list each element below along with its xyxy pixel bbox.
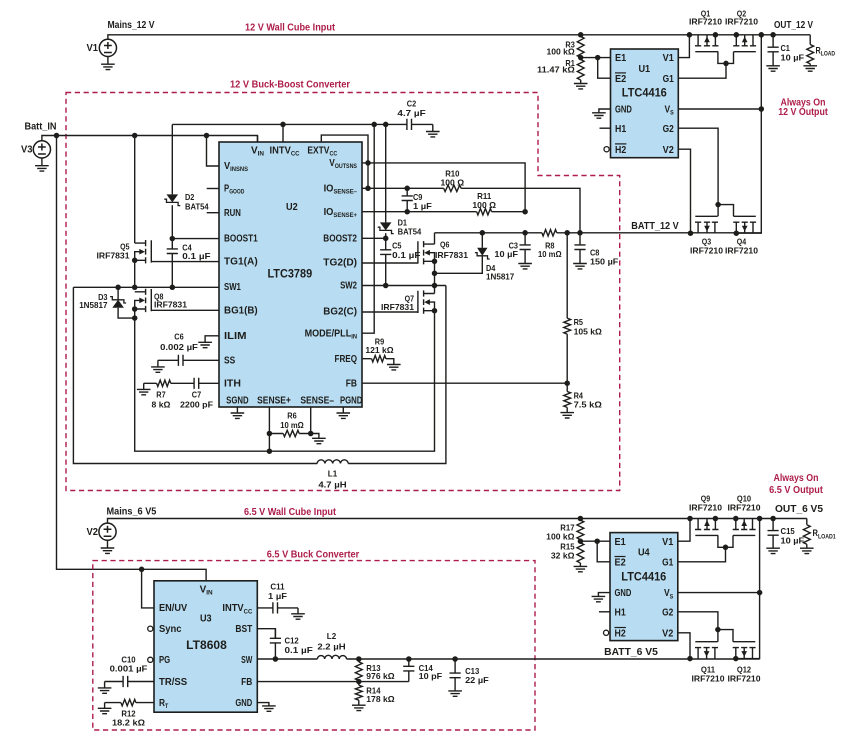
ground below R15 [574, 563, 588, 572]
svg-text:V2: V2 [663, 145, 675, 156]
resistor R1 [577, 60, 584, 81]
wire EXTVCC link to VOUTSNS [321, 135, 368, 163]
label C5 0.1 uF [392, 241, 420, 261]
label R11 100 Ohm [472, 191, 496, 210]
junction dot BOOST1/C4 [170, 236, 176, 242]
junction dots Q1/Q2 [713, 32, 739, 66]
svg-text:TR/SS: TR/SS [159, 677, 187, 688]
resistor R14 [355, 682, 362, 706]
label C9 1 uF [413, 192, 432, 211]
junction dot EN/UV branch [139, 567, 145, 573]
capacitor C11 on INTVCC [257, 602, 298, 613]
svg-text:4.7 µH: 4.7 µH [318, 480, 346, 490]
svg-text:G2: G2 [663, 124, 675, 135]
wire SW1 pin run [73, 286, 219, 288]
junction dots on BATT_6V5 rail [356, 656, 458, 662]
svg-text:6.5 V Output: 6.5 V Output [769, 485, 823, 496]
label C14 10 pF [419, 663, 443, 681]
transistor Q3 IRF7210 [695, 216, 718, 233]
wire MODE/PLLIN riser [362, 124, 374, 333]
label C6 0.002 uF [160, 331, 198, 351]
wire TG2 to Q6 gate [362, 262, 418, 264]
svg-text:BAT54: BAT54 [398, 227, 422, 237]
svg-text:E1: E1 [615, 537, 627, 548]
capacitor C14 [403, 659, 414, 682]
junction dots sense network [365, 160, 528, 214]
junction dot C15 top [770, 516, 776, 522]
svg-text:8 kΩ: 8 kΩ [152, 399, 171, 409]
junction dots on OUT_6V5 vertical [757, 516, 763, 596]
junction dot C1 top [770, 32, 776, 38]
ground at C11 [291, 614, 305, 619]
wire SW2 pin run [362, 285, 446, 287]
junction dots on OUT_12V vertical [759, 32, 765, 112]
label D2 BAT54 [185, 192, 209, 211]
svg-text:LT8608: LT8608 [186, 639, 227, 652]
svg-text:H1: H1 [615, 124, 627, 135]
U3 PG bubble [148, 657, 153, 662]
label Q11 IRF7210 [692, 665, 725, 684]
svg-text:LTC3789: LTC3789 [267, 268, 312, 281]
svg-text:1 µF: 1 µF [268, 591, 287, 601]
svg-text:18.2 kΩ: 18.2 kΩ [112, 718, 145, 728]
junction dot FB/R13 [356, 679, 362, 685]
ground at R12 [98, 708, 112, 713]
U4 H2 bubble [604, 630, 609, 635]
svg-text:OUT_12 V: OUT_12 V [774, 20, 813, 31]
wire SW1 to L1 [73, 287, 317, 463]
wire D2 to BOOST1 junction [171, 205, 173, 238]
svg-text:IRF7210: IRF7210 [689, 16, 722, 26]
svg-text:FB: FB [346, 378, 357, 389]
label Q8 IRF7831 [154, 292, 187, 310]
label C7 2200 pF [180, 389, 213, 409]
resistor R12 on RT [105, 699, 154, 705]
dashed box 6.5 V Buck Converter [93, 561, 535, 730]
wire Q9-Q10 gate link [718, 535, 733, 547]
wire L1 to SW2 [348, 286, 446, 464]
svg-text:GND: GND [235, 698, 252, 709]
wire U1 G2 to Q3/Q4 gates [678, 128, 718, 204]
svg-text:178 kΩ: 178 kΩ [366, 694, 394, 704]
capacitor C12 [270, 629, 281, 659]
diode D2 BAT54 [164, 194, 180, 205]
ground below C8 [573, 264, 587, 269]
svg-text:IRF7831: IRF7831 [435, 250, 468, 260]
wire U4 Vs to output sense [678, 592, 760, 594]
junction dot SW/C12 [273, 656, 279, 662]
label R6 10 mOhm [280, 410, 304, 430]
op-amp U3 LT8608 body [154, 581, 257, 712]
junction dot U4 V1/rail [687, 516, 693, 522]
ground below R4 [560, 413, 574, 418]
label R17 100 kOhm [546, 522, 575, 541]
svg-text:1N5817: 1N5817 [486, 272, 515, 282]
ground below V1 [101, 57, 115, 70]
wire Q8 source chain down [135, 309, 435, 451]
svg-text:Sync: Sync [159, 624, 182, 635]
label R8 10 mOhm [538, 241, 562, 259]
wire U4 V1 to 6.5V rail [678, 519, 690, 542]
svg-text:C11: C11 [270, 582, 284, 592]
svg-text:C7: C7 [192, 389, 202, 399]
wire BST to C12 [257, 629, 275, 639]
junction dot Q7 source [432, 308, 438, 314]
wire D1 to BOOST2 [385, 233, 387, 238]
svg-text:H2: H2 [615, 145, 627, 156]
ground at PGND [337, 407, 351, 418]
wire E2 feed [598, 58, 611, 79]
svg-text:BAT54: BAT54 [185, 201, 209, 211]
svg-text:C2: C2 [407, 98, 417, 108]
label D1 BAT54 [398, 217, 422, 236]
svg-text:0.1 µF: 0.1 µF [285, 645, 313, 655]
wire SENSE+ drop [268, 407, 270, 451]
label Q5 IRF7831 [97, 242, 130, 261]
wire VOUTSNS run [362, 163, 525, 212]
svg-text:V1: V1 [87, 43, 99, 54]
label C12 0.1 uF [285, 636, 313, 655]
wire IOSENSE- run with R10 [362, 185, 580, 233]
U1 H1 stub [600, 127, 611, 129]
svg-text:1 µF: 1 µF [413, 201, 432, 211]
U1 GND pin wire [599, 109, 611, 113]
ground below C2 [426, 132, 440, 137]
label R5 105 kOhm [574, 317, 602, 336]
wire ILIM to ground [205, 336, 219, 343]
wire Batt_IN to Q5 drain [134, 136, 136, 244]
label L2 2.2 uH [317, 631, 345, 651]
label R10 100 Ohm [441, 168, 465, 187]
svg-text:RUN: RUN [224, 208, 241, 219]
ground at C10 [98, 688, 112, 693]
junction dots D1/C5 [383, 236, 389, 289]
svg-text:IRF7831: IRF7831 [154, 299, 187, 309]
junction dots near R17/R15 [578, 516, 600, 544]
resistor R7 and capacitor C7 on ITH [144, 378, 219, 389]
ground at R7 [137, 389, 151, 394]
wire Q6 drain to BATT rail [434, 233, 436, 244]
wire R3/R1 junction to E1 [581, 57, 611, 59]
wire U1 V1 to top rail [678, 35, 689, 58]
ground at SENSE- [312, 438, 326, 443]
svg-text:U3: U3 [200, 614, 212, 625]
svg-text:FB: FB [241, 677, 252, 688]
svg-text:TG2(D): TG2(D) [323, 258, 357, 269]
ground below R1 [574, 80, 588, 89]
label Q1 IRF7210 [689, 9, 722, 27]
transistor Q2 IRF7210 [733, 35, 756, 52]
diode D1 BAT54 [378, 222, 394, 233]
label R15 32 kOhm [551, 541, 575, 560]
wire VOUTSNS tie to IOSENSE- [367, 163, 369, 188]
svg-text:Always On: Always On [774, 473, 819, 484]
svg-text:U2: U2 [286, 202, 298, 213]
label C8 150 uF [590, 248, 618, 267]
svg-text:SENSE–: SENSE– [300, 396, 334, 407]
label C11 1 uF [268, 582, 287, 602]
transistor Q5 IRF7831 [135, 240, 152, 263]
svg-text:IRF7210: IRF7210 [728, 502, 761, 512]
label Q2 IRF7210 [725, 9, 758, 27]
capacitor C15 [768, 519, 779, 549]
U2 PGOOD stub [207, 188, 219, 190]
svg-text:GND: GND [615, 588, 632, 599]
svg-text:10 pF: 10 pF [419, 671, 443, 681]
label Q10 IRF7210 [728, 494, 761, 513]
red note Always On 6.5 V Output [769, 473, 823, 496]
svg-text:C6: C6 [174, 331, 184, 341]
svg-text:V3: V3 [21, 145, 33, 156]
svg-text:SW: SW [241, 655, 253, 666]
svg-text:OUT_6 V5: OUT_6 V5 [775, 504, 824, 515]
svg-text:IRF7831: IRF7831 [97, 251, 130, 261]
transistor Q8 IRF7831 [135, 289, 152, 312]
transistor Q12 IRF7210 [733, 642, 756, 659]
wire TG1 to Q5 gate [151, 261, 219, 263]
U4 pin E2 with overline [615, 557, 627, 569]
ground below V3 [35, 158, 49, 171]
label R4 7.5 kOhm [574, 390, 602, 409]
svg-text:12 V Output: 12 V Output [778, 107, 828, 118]
wire D2 branch from INTVCC rail [171, 124, 173, 194]
svg-text:PG: PG [159, 655, 170, 666]
label R1 11.47 k&#937; [537, 58, 575, 75]
svg-text:U1: U1 [638, 64, 650, 75]
ground below R_LOAD1 [800, 548, 814, 553]
transistor Q10 IRF7210 [733, 519, 756, 536]
svg-text:LTC4416: LTC4416 [621, 570, 667, 583]
svg-text:6.5 V Wall Cube Input: 6.5 V Wall Cube Input [244, 507, 337, 518]
junction dot V1/rail [687, 32, 693, 38]
svg-text:V2: V2 [662, 628, 674, 639]
svg-text:G2: G2 [662, 607, 674, 618]
svg-text:1N5817: 1N5817 [79, 300, 108, 310]
svg-text:H2: H2 [615, 628, 627, 639]
svg-text:0.1 µF: 0.1 µF [392, 250, 420, 260]
resistor R4 [564, 383, 571, 412]
label D3 1N5817 [79, 292, 108, 310]
wire OUT_12V down to Vs and BATT rail [736, 35, 761, 233]
svg-text:100 Ω: 100 Ω [472, 200, 496, 210]
svg-text:MODE/PLLIN: MODE/PLLIN [305, 328, 358, 340]
label D4 1N5817 [486, 263, 515, 282]
label Q12 IRF7210 [728, 665, 761, 684]
svg-text:U4: U4 [638, 547, 650, 558]
svg-text:SW2: SW2 [340, 281, 357, 292]
svg-text:C5: C5 [392, 241, 402, 251]
label R3 100 k&#937; [547, 40, 576, 57]
junction dot FB divider [564, 380, 570, 386]
ground below C15 [766, 548, 780, 553]
transistor Q1 IRF7210 [695, 35, 719, 52]
junction dots Q11/Q12 [687, 627, 738, 662]
wire U4 G1 to Q9/Q10 gates [678, 547, 726, 562]
wire Q6 source down [434, 261, 436, 293]
svg-text:GND: GND [615, 105, 632, 116]
label C10 0.001 uF [110, 654, 148, 673]
wire SENSE- kelvin ground [311, 434, 319, 439]
svg-text:IRF7210: IRF7210 [692, 673, 725, 683]
ground at U3 GND [262, 706, 276, 711]
label R9 121 kOhm [365, 337, 393, 355]
junction dots near R3/R1 [578, 32, 601, 60]
wire SS ground hook [157, 360, 159, 367]
wire U4 V2 to BATT_6V5 rail [678, 633, 690, 659]
label C3 10 uF [494, 241, 518, 259]
resistor R6 10 mOhm [269, 430, 310, 436]
svg-text:BOOST2: BOOST2 [323, 233, 357, 244]
svg-text:100 kΩ: 100 kΩ [546, 531, 574, 541]
diode D4 1N5817 [475, 233, 490, 259]
wire INTVCC riser [282, 124, 284, 142]
svg-text:0.1 µF: 0.1 µF [182, 251, 210, 261]
label C1 10 uF [781, 43, 805, 63]
svg-text:BOOST1: BOOST1 [224, 234, 258, 245]
capacitor C3 [520, 233, 531, 264]
svg-text:100 Ω: 100 Ω [441, 178, 465, 188]
wire FB run [362, 382, 567, 384]
svg-text:105 kΩ: 105 kΩ [574, 327, 602, 337]
wire BG1 to Q8 gate [151, 309, 219, 311]
svg-text:10 µF: 10 µF [494, 249, 518, 259]
voltage source V1 (Mains_12 V) [99, 35, 580, 57]
voltage source V2 (Mains_6 V5) [99, 519, 807, 541]
wire Q1-Q2 gate link [718, 52, 734, 64]
label Q6 IRF7831 [435, 239, 468, 259]
wire top rail from R3 to OUT_12 V [581, 34, 811, 36]
svg-text:TG1(A): TG1(A) [224, 257, 258, 268]
resistor R9 on FREQ [362, 356, 394, 365]
ground below C3 [518, 264, 532, 269]
wire VINSNS feed [207, 136, 220, 167]
svg-text:ITH: ITH [224, 378, 241, 389]
wire C11 ground hook [297, 608, 299, 614]
resistor R13 [355, 659, 362, 682]
svg-text:IRF7210: IRF7210 [728, 673, 761, 683]
wire D3 anode return [118, 308, 135, 318]
wire L2 to BATT_6V5 rail [347, 658, 760, 660]
capacitor C1 [768, 35, 779, 66]
wire Q3-Q4 gate link [718, 205, 733, 217]
svg-text:BG1(B): BG1(B) [224, 305, 258, 316]
red note Always On 12 V Output [778, 98, 828, 119]
svg-text:SGND: SGND [226, 396, 249, 407]
wire ITH ground hook [143, 383, 145, 389]
wire SENSE- drop [310, 407, 312, 434]
capacitor C4 [167, 239, 178, 288]
svg-text:0.002 µF: 0.002 µF [160, 342, 198, 352]
junction dots BATT_12V rail [480, 230, 583, 236]
diode D3 1N5817 [110, 287, 126, 308]
U4 pin H2 with overline [615, 628, 627, 640]
svg-text:12 V Wall Cube Input: 12 V Wall Cube Input [245, 23, 336, 34]
wire BG2 to Q7 gate [362, 311, 418, 313]
svg-text:IRF7210: IRF7210 [690, 246, 723, 256]
wire C2 to ground [432, 124, 434, 131]
svg-text:100 kΩ: 100 kΩ [547, 47, 575, 57]
svg-text:SENSE+: SENSE+ [257, 396, 291, 407]
ground at R9 [387, 365, 401, 370]
ground below R14 [352, 705, 366, 710]
wire D1 branch from INTVCC rail [385, 124, 387, 222]
resistor R15 [577, 543, 584, 563]
label R14 178 kOhm [366, 686, 394, 705]
wire U1 G1 to Q1/Q2 gates [678, 63, 726, 78]
svg-text:10 µF: 10 µF [781, 53, 805, 63]
svg-text:Mains_12 V: Mains_12 V [108, 20, 155, 31]
svg-text:IRF7831: IRF7831 [381, 302, 414, 312]
wire D4 return [435, 256, 483, 273]
wire OUT_6V5 down to Vs and BATT_6V5 rail [736, 519, 760, 659]
capacitor C8 [574, 233, 585, 264]
junction dots on Batt_IN rail [54, 133, 210, 139]
transistor Q11 IRF7210 [695, 642, 718, 659]
capacitor C9 [402, 188, 413, 211]
svg-text:Mains_6 V5: Mains_6 V5 [107, 507, 157, 518]
svg-text:BG2(C): BG2(C) [323, 307, 357, 318]
label Q7 IRF7831 [381, 294, 414, 312]
junction dots on SW1 [115, 258, 175, 291]
label C15 10 uF [781, 526, 805, 546]
op-amp U4 LTC4416 body [610, 533, 678, 641]
wire EN/UV feed [142, 569, 154, 608]
svg-text:2200 pF: 2200 pF [180, 399, 213, 409]
U1 pin E2 with overline [615, 73, 627, 85]
resistor R5 [564, 233, 571, 383]
wire U4 G2 to Q11/Q12 gates [678, 612, 718, 630]
U1 H2 bubble [604, 147, 609, 152]
svg-text:ILIM: ILIM [224, 331, 247, 342]
svg-text:V1: V1 [662, 537, 674, 548]
U3 GND pin ground [257, 703, 269, 706]
svg-text:FREQ: FREQ [335, 354, 358, 365]
label Q4 IRF7210 [725, 237, 758, 256]
ground at SS/C6 [151, 367, 165, 372]
svg-text:C15: C15 [781, 526, 795, 536]
wire VIN drop [257, 136, 259, 143]
capacitor C13 [450, 659, 461, 691]
ground below R_LOAD [803, 66, 817, 71]
voltage source V3 (Batt_IN) [33, 136, 257, 158]
junction dots Q6/SW2 [432, 259, 438, 289]
svg-text:6.5 V Buck Converter: 6.5 V Buck Converter [267, 550, 360, 561]
svg-text:IRF7210: IRF7210 [725, 16, 758, 26]
U3 Sync bubble [148, 626, 153, 631]
svg-text:H1: H1 [615, 607, 627, 618]
junction dots Q3/Q4 [688, 202, 739, 236]
U4 H1 stub [599, 611, 610, 613]
svg-text:R6: R6 [287, 410, 297, 420]
svg-text:E2: E2 [615, 74, 627, 85]
svg-text:E1: E1 [615, 53, 627, 64]
svg-text:BATT_12 V: BATT_12 V [631, 221, 679, 232]
ground below V2 [101, 540, 115, 553]
label Q3 IRF7210 [690, 237, 723, 256]
svg-text:E2: E2 [615, 557, 627, 568]
op-amp U2 LTC3789 body [219, 142, 362, 407]
ground below C1 [766, 66, 780, 71]
svg-text:0.001 µF: 0.001 µF [110, 663, 148, 673]
svg-text:10 mΩ: 10 mΩ [538, 249, 562, 259]
junction dots R6 [267, 431, 314, 454]
svg-text:R7: R7 [156, 389, 166, 399]
capacitor C5 [380, 238, 391, 285]
svg-text:976 kΩ: 976 kΩ [366, 671, 394, 681]
wire INTVCC rail (y=124.4) with C2 branch [172, 123, 407, 125]
svg-text:4.7 µF: 4.7 µF [397, 108, 425, 118]
transistor Q7 IRF7831 [418, 290, 435, 313]
